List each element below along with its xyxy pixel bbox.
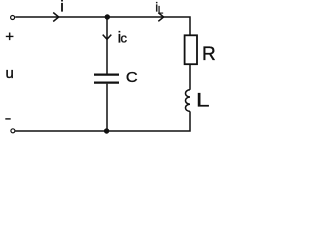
resistor R (body): [185, 35, 197, 64]
svg-text:C: C: [126, 69, 138, 86]
arrow: current iL (top-right, pointing right): [158, 13, 163, 22]
capacitor C (top plate): [94, 73, 119, 75]
svg-text:L: L: [158, 5, 164, 17]
arrow: current i (top-left, pointing right): [53, 13, 59, 22]
label: source polarity - (drawn bar): [5, 118, 10, 119]
terminal: bottom-left input: [11, 129, 15, 133]
inductor L (coil): [186, 90, 191, 112]
svg-text:R: R: [202, 44, 216, 65]
wire: top horizontal + right vertical into resistor: [15, 17, 190, 35]
capacitor C (bottom plate): [94, 81, 119, 83]
terminal: top-left input: [11, 16, 15, 20]
svg-text:c: c: [121, 31, 128, 46]
svg-text:+: +: [5, 29, 14, 46]
junction node: top: [105, 14, 110, 19]
wire: right vertical (resistor to inductor): [189, 64, 191, 90]
svg-text:i: i: [60, 0, 64, 16]
wire: middle vertical (top, into capacitor): [106, 17, 108, 74]
junction node: bottom: [104, 128, 109, 133]
svg-text:u: u: [6, 65, 14, 82]
svg-text:L: L: [196, 90, 210, 111]
arrow: current ic (middle branch, pointing down): [103, 35, 112, 40]
wire: right vertical below inductor + bottom horizontal: [15, 111, 190, 131]
wire: middle vertical (capacitor to bottom): [106, 84, 108, 131]
